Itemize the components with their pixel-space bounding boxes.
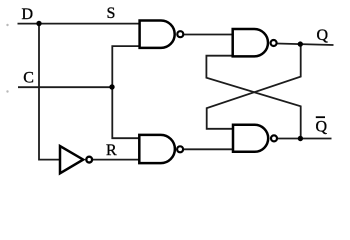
svg-text:S: S — [107, 5, 116, 22]
svg-text:R: R — [106, 142, 117, 159]
svg-text:C: C — [23, 70, 34, 87]
svg-text:Q: Q — [317, 27, 329, 44]
svg-text:D: D — [22, 6, 34, 23]
svg-text:Q: Q — [316, 119, 328, 136]
